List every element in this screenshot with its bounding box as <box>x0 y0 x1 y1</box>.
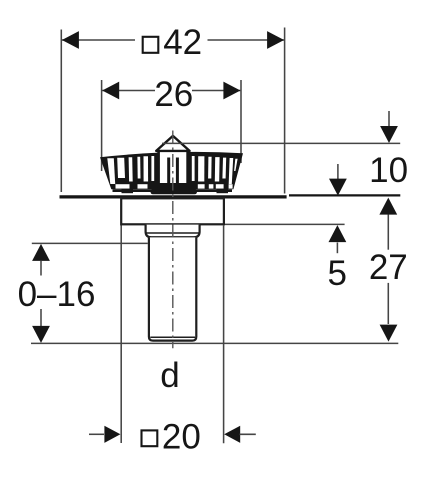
strainer top cone / dome cap <box>156 136 189 151</box>
svg-text:10: 10 <box>369 151 408 190</box>
dimension "square 42" : extension lines, dimension line, arrows, label <box>61 23 284 194</box>
bottom reference line at pipe end level (shared by dims 0-16 and 27) <box>31 342 398 344</box>
strainer bottom base ring <box>113 189 233 192</box>
svg-text:20: 20 <box>162 417 201 456</box>
svg-text:d: d <box>160 356 179 395</box>
centre lantern of strainer (white tower) <box>159 150 188 186</box>
strainer basket silhouette (trapezoid with arched top rim) <box>100 152 243 189</box>
svg-text:0–16: 0–16 <box>18 275 96 314</box>
dimension "10" : two down arrows and label <box>329 111 408 196</box>
dimension "square 20" : extension lines, inward arrows, label <box>89 225 256 456</box>
roof slab line (thick, spans square-42 extent) <box>60 195 287 198</box>
svg-text:5: 5 <box>327 254 346 293</box>
leader line from dome top to right margin (ref for dim 10) <box>162 142 400 144</box>
roof level extension line to the right (ref for dims 10 and 27) <box>289 194 400 196</box>
dimension "0-16" : top extension line, vertical line, arrows, label <box>18 243 148 343</box>
dimension "26" : extension lines, dimension line, arrows, label <box>102 75 241 171</box>
dimension "5" : extension line from flange corner, up arrow, label <box>225 224 347 293</box>
strainer feet and centre base plate <box>122 189 134 193</box>
vertical centre line (dash-dot) <box>172 131 174 349</box>
svg-text:27: 27 <box>369 248 408 287</box>
connection socket below flange <box>146 225 200 238</box>
outlet flange body (rectangle under roof line) <box>121 198 224 224</box>
svg-text:42: 42 <box>163 23 202 62</box>
svg-text:26: 26 <box>154 75 193 114</box>
dimension "27" : vertical dimension line with outward arrows, label <box>369 198 408 342</box>
discharge pipe (d) with rounded bottom and end chamfer line <box>149 237 196 340</box>
strainer slat openings (white slits) <box>107 156 237 189</box>
